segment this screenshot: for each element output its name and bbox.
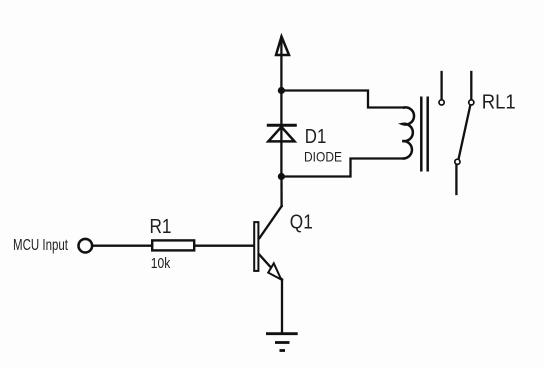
svg-text:R1: R1 — [150, 216, 172, 238]
svg-text:10k: 10k — [151, 255, 171, 272]
svg-text:D1: D1 — [305, 126, 327, 148]
resistor R1 body — [152, 240, 194, 250]
node at diode cathode / coil top — [278, 87, 285, 94]
relay contact pin 2 and switch arm — [455, 72, 474, 194]
wire terminal to R1 — [92, 245, 151, 247]
relay contact pin 1 — [439, 72, 444, 105]
ground — [266, 334, 298, 351]
svg-text:DIODE: DIODE — [304, 149, 342, 164]
wire from node to relay coil top — [281, 91, 404, 108]
power symbol VCC arrow — [276, 37, 289, 91]
MCU input terminal — [79, 239, 93, 253]
wire from relay coil bottom to node — [281, 159, 404, 177]
svg-text:RL1: RL1 — [482, 92, 516, 114]
relay RL1 coil — [402, 107, 414, 158]
diode D1 — [267, 91, 297, 177]
svg-text:MCU Input: MCU Input — [13, 237, 69, 254]
wire R1 to base — [195, 245, 253, 247]
svg-text:Q1: Q1 — [290, 212, 313, 234]
node at diode anode / collector — [278, 173, 285, 180]
relay core bars — [421, 97, 427, 172]
transistor Q1 — [254, 177, 282, 333]
